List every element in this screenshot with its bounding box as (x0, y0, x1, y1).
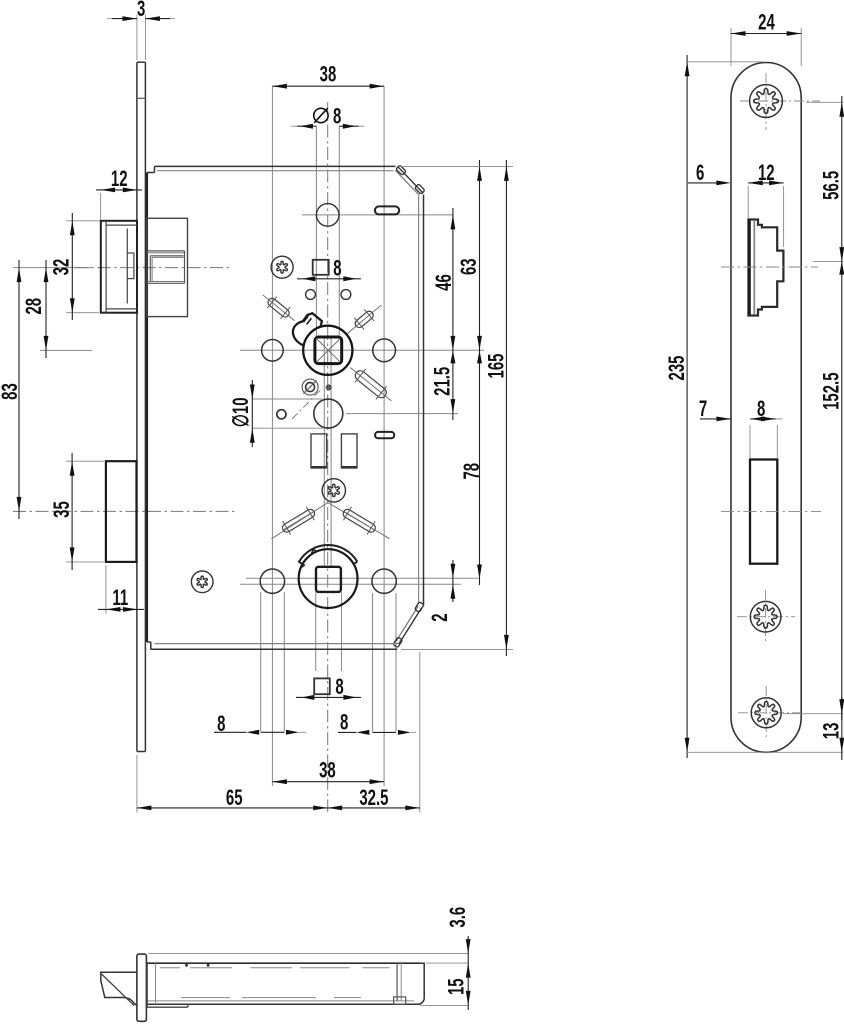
bottom follower square hole (316, 567, 341, 592)
dim 63 label (456, 258, 481, 275)
latch bolt head (101, 221, 137, 313)
dim 165 line (505, 160, 507, 656)
svg-text:11: 11 (112, 585, 128, 610)
svg-text:35: 35 (49, 501, 74, 518)
V spring axes (272, 503, 328, 539)
faceplate edge view (136, 62, 138, 751)
dim dia8 label (333, 103, 341, 128)
latch centerline dash-dot (75, 267, 231, 269)
svg-text:32: 32 (49, 259, 74, 276)
dim 3 extension lines (136, 15, 138, 61)
lower-right hole tangent right (395, 593, 397, 732)
dim 2 label (427, 613, 452, 621)
dim 235 label (664, 356, 689, 381)
faceplate outline (stadium) (731, 62, 801, 752)
dim 15 label (444, 978, 469, 995)
bottom hole left (260, 569, 284, 593)
ref chord line lower holes lower (240, 583, 461, 585)
pivot dot (326, 385, 331, 390)
dim 7 label (699, 396, 707, 421)
spring slot NE (342, 299, 386, 339)
dim 6 label (696, 160, 704, 185)
centerline right hole column x=384 (383, 86, 385, 786)
dim 13 ext lines (783, 713, 843, 715)
dim 152.5 line (841, 268, 843, 720)
dim 65 ext lines (136, 755, 138, 813)
torx screw lower-left (191, 571, 213, 593)
dim 8 right line (338, 731, 356, 733)
svg-text:21.5: 21.5 (430, 367, 455, 396)
svg-text:7: 7 (699, 396, 707, 421)
case right edge inner (418, 196, 420, 604)
latch pocket (147, 250, 185, 252)
dim 235 top ext (688, 61, 763, 63)
svg-text:78: 78 (459, 463, 484, 480)
vertical centerline lock case x=327.7 (327, 102, 329, 812)
dim 32 label (49, 259, 74, 276)
screw top centerlines (740, 100, 820, 102)
follower square edge ext left (315, 592, 317, 671)
dim 13 line (841, 697, 843, 760)
dim 24 ext lines (730, 28, 732, 66)
svg-text:8: 8 (757, 396, 765, 421)
faceplate screw bottom (751, 698, 781, 728)
slot edge line upper right (338, 127, 340, 338)
dim 38 bottom label (319, 758, 336, 783)
case bottom edge outer (151, 648, 397, 650)
svg-text:24: 24 (758, 10, 775, 35)
centerline left hole column x=272 (271, 86, 273, 786)
dim 24 line (731, 33, 801, 35)
svg-text:3.6: 3.6 (445, 907, 470, 928)
spring box left (311, 434, 327, 468)
deadbolt head (106, 461, 137, 562)
diagonal dash centerline (292, 389, 322, 420)
latch bolt step profile (126, 229, 128, 254)
dim 11 label (112, 585, 128, 610)
case top inner line (157, 170, 394, 172)
lower-left hole tangent left (260, 592, 262, 732)
svg-text:63: 63 (456, 258, 481, 275)
svg-text:8: 8 (217, 711, 225, 736)
follower slot edge right (330, 337, 332, 567)
svg-text:235: 235 (664, 356, 689, 381)
case inner left wall (146, 963, 148, 1007)
svg-text:38: 38 (319, 758, 336, 783)
svg-text:13: 13 (819, 723, 844, 740)
dim 65 label (226, 785, 243, 810)
dim dia10 ext lines (252, 398, 322, 400)
V spring slot left (279, 505, 318, 537)
follower side hole right (373, 339, 396, 362)
spring slot NW (258, 289, 299, 326)
dim 32.5 label (359, 785, 388, 810)
faceplate screw top (750, 85, 783, 118)
ext line follower center left stub (40, 349, 92, 351)
svg-text:28: 28 (21, 298, 46, 315)
dim 46 line (452, 208, 454, 357)
dim 35 ext lines (66, 460, 104, 462)
dim 65-32.5 line (137, 807, 420, 809)
svg-text:165: 165 (484, 354, 509, 379)
rivet dots (185, 964, 188, 967)
dim 12 line (96, 189, 142, 191)
dim 46 label (431, 274, 456, 291)
case top edge (147, 172, 155, 174)
svg-text:6: 6 (696, 160, 704, 185)
follower slot edge left (323, 337, 325, 567)
dim 8 left line (214, 731, 246, 733)
dim 35 line (71, 453, 73, 570)
grub screw (302, 379, 318, 395)
svg-text:8: 8 (333, 256, 341, 281)
corner tab top (396, 165, 406, 175)
dim 21.5 label (430, 367, 455, 396)
ref chord line lower holes upper (246, 577, 479, 579)
ref line through follower y=350 (240, 349, 484, 351)
dim 56.5 line (841, 96, 843, 268)
slot mid right (375, 432, 394, 438)
case bottom-right chamfer (399, 608, 422, 645)
svg-text:8: 8 (340, 710, 348, 735)
small hole beside cylinder (277, 410, 286, 419)
dim 11 line (98, 608, 144, 610)
case inner right wall (396, 963, 398, 1001)
follower circle (303, 326, 352, 375)
svg-text:12: 12 (758, 160, 775, 185)
square diagonals (317, 339, 341, 363)
spring box right (341, 434, 357, 468)
dim 56.5 label (819, 171, 844, 200)
dim 12 ext (100, 193, 102, 220)
svg-text:∅10: ∅10 (228, 397, 253, 427)
latch cutout bar (747, 220, 750, 316)
svg-text:12: 12 (111, 166, 128, 191)
dim 28 label (21, 298, 46, 315)
dim 13 label (819, 723, 844, 740)
screw middle centerlines (737, 616, 795, 618)
ref line through top hole y=215 (302, 214, 454, 216)
dim 11 ext (105, 565, 107, 614)
dim dia10 line (251, 380, 253, 447)
dim 32 line (71, 213, 73, 320)
dim 28 line (45, 260, 47, 358)
deadbolt cutout (750, 460, 777, 564)
inner tabs bottom (181, 997, 230, 999)
small square bottom (314, 678, 330, 694)
small square top (313, 260, 329, 275)
dim 7-8 ext lines (749, 425, 751, 458)
dim 24 label (758, 10, 775, 35)
dim 8 sq-top line (297, 278, 361, 280)
follower side hole left (262, 340, 284, 362)
dim 8 fp label (757, 396, 765, 421)
dim 152.5 label (819, 372, 844, 409)
dim 3.6-15 ext lines (148, 953, 469, 955)
svg-text:56.5: 56.5 (819, 171, 844, 200)
dim 38 bottom line (272, 781, 384, 783)
dim 6 line (688, 182, 718, 184)
dim 7 line (700, 418, 731, 420)
latch bolt bevel lines (105, 221, 107, 313)
follower square edge ext right (341, 592, 343, 671)
svg-text:46: 46 (431, 274, 456, 291)
case left edge (146, 173, 148, 643)
corner tab bottom (393, 637, 403, 648)
lower-left hole tangent right (283, 592, 285, 732)
guide ledge (146, 1006, 188, 1008)
bottom right tab (394, 997, 406, 1004)
dim 3.6 label (445, 907, 470, 928)
dim 78 line (479, 357, 481, 585)
ext line latch center left stub (13, 267, 92, 269)
latch spring clip (149, 256, 151, 281)
dim 63 line (479, 160, 481, 357)
svg-text:83: 83 (0, 383, 22, 400)
slot top right (375, 206, 399, 214)
torx screw middle (322, 479, 345, 502)
svg-text:65: 65 (226, 785, 243, 810)
top fixing hole (316, 204, 339, 227)
dim 38 top line (272, 85, 384, 87)
latch cutout steps (747, 220, 783, 316)
case top-right chamfer (398, 167, 423, 193)
dim dia10 label (228, 397, 253, 427)
dim 12 fp line (748, 182, 783, 184)
svg-text:2: 2 (427, 613, 452, 621)
dim 78 label (459, 463, 484, 480)
svg-text:8: 8 (335, 674, 343, 699)
torx screw upper (271, 256, 293, 278)
corner tab right-bottom (415, 602, 425, 613)
dim 8 sq-bottom label (335, 674, 343, 699)
dia symbol (314, 108, 328, 122)
follower square hole (315, 337, 342, 364)
dim 3 line+arrows (112, 18, 137, 20)
dim 3 label (137, 0, 145, 21)
dim 12 fp ext lines (747, 186, 749, 218)
dim 32 ext lines (66, 220, 100, 222)
dim 21.5 line (452, 357, 454, 420)
svg-text:15: 15 (444, 978, 469, 995)
dim 56.5 ext lines (806, 101, 843, 103)
lower-right hole tangent left (372, 593, 374, 732)
svg-text:38: 38 (320, 62, 337, 87)
dim 38 top label (320, 62, 337, 87)
dim 165 label (484, 354, 509, 379)
dim 3.6-15 line (467, 936, 469, 1010)
dim 8 sq-top label (333, 256, 341, 281)
dim 8 sq-bottom line (296, 696, 361, 698)
svg-text:152.5: 152.5 (819, 372, 844, 409)
svg-text:8: 8 (333, 103, 341, 128)
deadbolt cutout centerline (721, 510, 821, 512)
bottom hole right (372, 569, 396, 593)
faceplate screw middle (750, 601, 781, 632)
corner tab diag (415, 184, 425, 194)
bottom follower cam (299, 545, 357, 568)
latch cutout centerline (721, 266, 818, 268)
case bottom edge inner (155, 643, 399, 645)
inner tabs top (160, 967, 180, 969)
dim 2 line (452, 560, 454, 602)
dim 235 line (686, 55, 688, 758)
svg-text:32.5: 32.5 (359, 785, 388, 810)
dim 83 line (18, 260, 20, 519)
follower cam nose (293, 313, 322, 345)
dim 35 label (49, 501, 74, 518)
small hole left (306, 290, 316, 300)
case body (top view) (146, 962, 420, 964)
spring slot SE (345, 361, 397, 408)
dim 8 left label (217, 711, 225, 736)
dim dia8 line (297, 125, 316, 127)
dim 83 label (0, 383, 22, 400)
cylinder hole (314, 399, 343, 428)
dim 8 fp line (750, 418, 775, 420)
dim 12 fp label (758, 160, 775, 185)
case right edge outer (423, 195, 425, 606)
latch guide box (147, 218, 188, 316)
dim 12 label (111, 166, 128, 191)
V spring slot right (340, 505, 379, 537)
latch bolt (top view) (101, 972, 137, 1005)
dim 165 ext lines (399, 165, 513, 167)
bottom follower circle (299, 549, 358, 608)
small hole right (341, 290, 351, 300)
ref line cylinder center (346, 413, 458, 415)
deadbolt centerline dash-dot (13, 510, 235, 512)
screw bottom centerlines (738, 712, 800, 714)
faceplate bar (top view) (137, 954, 147, 1021)
slot edge line upper left (315, 127, 317, 338)
svg-text:3: 3 (137, 0, 145, 21)
dim 8 right label (340, 710, 348, 735)
